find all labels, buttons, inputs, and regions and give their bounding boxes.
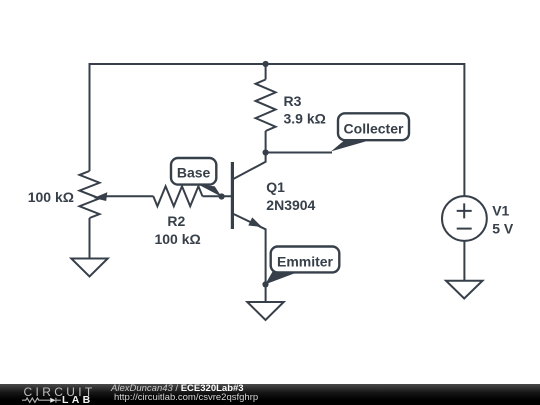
wire collector to label [266,152,332,154]
wire R3 bottom lead to collector node [265,131,267,153]
transistor Q1 emitter lead [233,214,266,302]
svg-text:V1: V1 [492,203,509,219]
node label Base bubble [171,158,222,197]
node VCC junction dot [263,61,269,67]
svg-text:2N3904: 2N3904 [266,197,315,213]
ground right [446,281,483,299]
svg-text:Base: Base [177,165,211,181]
resistor R2 body [153,186,202,206]
ground left [71,259,107,277]
footer credit text [112,383,412,385]
footer bar [0,384,540,405]
ground middle [247,302,283,320]
voltage source V1 plus sign [457,203,472,218]
svg-text:R2: R2 [167,213,185,229]
resistor R3 top lead [265,64,267,80]
svg-text:R3: R3 [284,93,302,109]
transistor Q1 emitter arrowhead [248,217,261,227]
voltage source V1 circle [442,196,487,241]
wire V1 bottom to ground [463,241,465,281]
svg-text:LAB: LAB [62,394,93,405]
node emitter junction dot [262,281,268,287]
node base junction dot [219,193,225,199]
svg-text:Q1: Q1 [266,179,285,195]
transistor Q1 bar [231,162,234,229]
pot wiper arrowhead [94,192,108,201]
svg-text:3.9 kΩ: 3.9 kΩ [284,111,326,127]
svg-text:100 kΩ: 100 kΩ [28,189,74,205]
wire VCC top rail with left and right drops [90,64,465,196]
svg-text:100 kΩ: 100 kΩ [154,231,200,247]
node label Emmiter bubble [265,247,339,285]
potentiometer P1 body [80,171,100,218]
node collector junction dot [263,149,269,155]
svg-text:Emmiter: Emmiter [277,254,334,270]
footer CircuitLab logo [0,384,110,405]
voltage source V1 minus sign [457,228,472,230]
resistor R3 body [256,80,276,132]
wire R2 right lead to base node [203,195,232,197]
transistor Q1 collector lead [233,153,266,180]
svg-text:Collecter: Collecter [344,120,404,136]
wire pot bottom to ground [89,218,91,259]
node label Collecter bubble [331,113,409,151]
svg-text:5 V: 5 V [492,220,514,236]
wire pot wiper / R2 left lead [100,195,153,197]
